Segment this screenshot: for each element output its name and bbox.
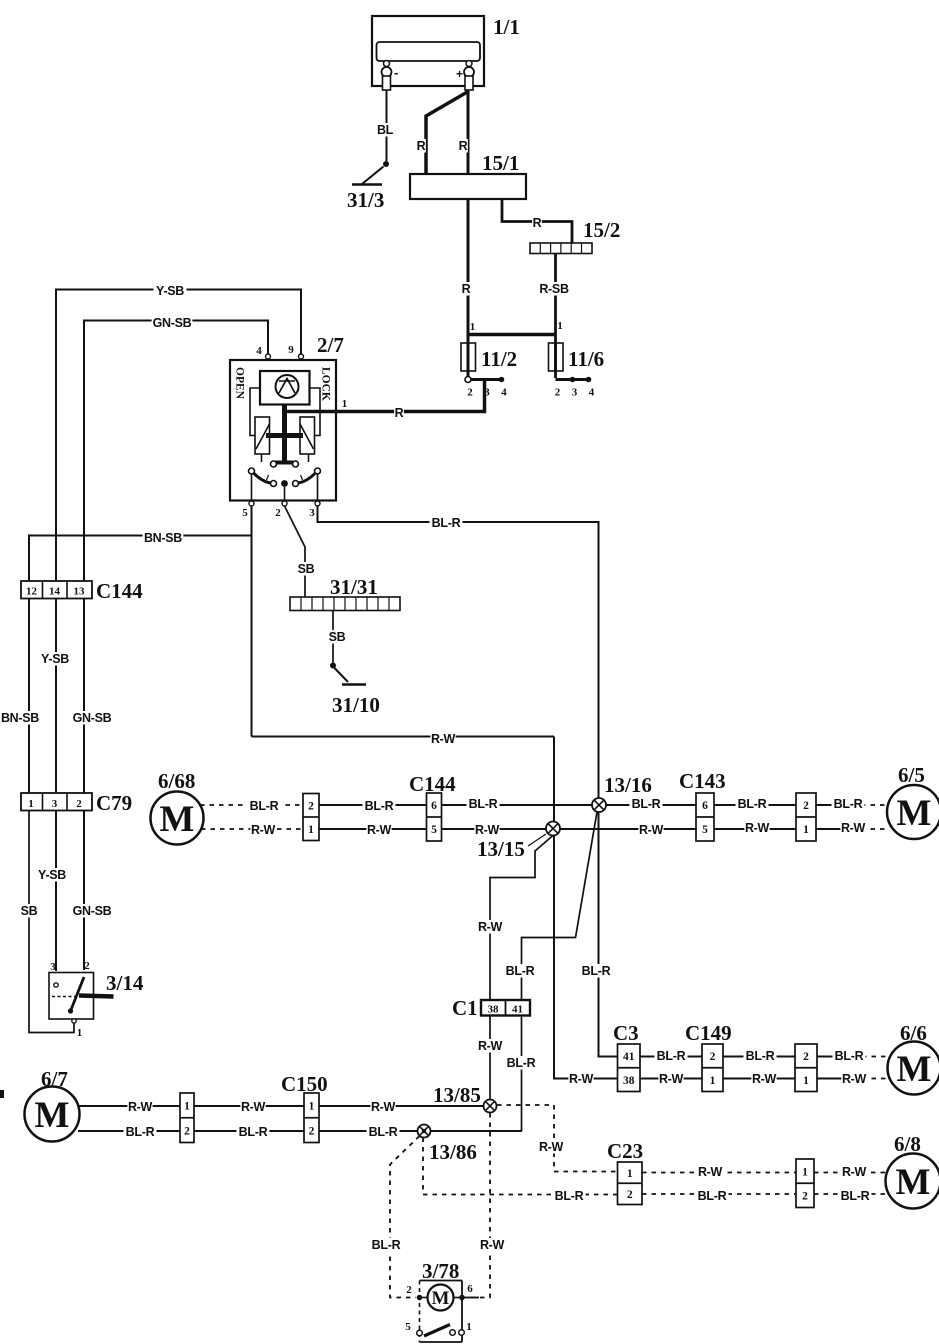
wire BL-R C143 to connector row1 bbox=[714, 804, 796, 806]
wire R-W horizontal from pin 5 drop bbox=[252, 736, 555, 738]
svg-text:BL-R: BL-R bbox=[835, 1049, 864, 1063]
svg-text:13/85: 13/85 bbox=[433, 1083, 481, 1107]
svg-text:1: 1 bbox=[28, 798, 34, 810]
relay 2/7 coil lower stubs bbox=[262, 454, 309, 462]
svg-text:2: 2 bbox=[184, 1125, 190, 1137]
svg-text:Y-SB: Y-SB bbox=[156, 284, 184, 298]
svg-text:1: 1 bbox=[802, 1166, 808, 1178]
label R-W row2 c bbox=[841, 1072, 866, 1086]
svg-text:1: 1 bbox=[77, 1027, 83, 1039]
junction 13/86 bbox=[418, 1125, 477, 1165]
svg-text:R: R bbox=[395, 406, 404, 420]
label R to 15/2 bbox=[532, 216, 542, 230]
label Y-SB low bbox=[36, 868, 69, 882]
motor 6/6 bbox=[888, 1021, 939, 1095]
wire R-W vertical through junction 13/15 to C3 pin 38 bbox=[554, 737, 618, 1079]
svg-text:BL-R: BL-R bbox=[432, 516, 461, 530]
wire R-SB from 15/2 down to fuse 11/6 bbox=[554, 254, 557, 379]
label BL-R to 3/78 bbox=[370, 1238, 403, 1252]
svg-text:BL-R: BL-R bbox=[657, 1049, 686, 1063]
svg-text:2: 2 bbox=[710, 1051, 716, 1063]
svg-text:R-W: R-W bbox=[698, 1165, 723, 1179]
wire R-W motor 6/7 to connector bbox=[80, 1105, 181, 1107]
connector C3 bbox=[613, 1021, 640, 1092]
svg-text:2: 2 bbox=[309, 1125, 315, 1137]
label R-W row3 a bbox=[127, 1100, 152, 1114]
svg-text:5: 5 bbox=[702, 824, 708, 836]
svg-text:OPEN: OPEN bbox=[234, 367, 246, 400]
wire Y-SB C79 to switch 3/14 pin 3 bbox=[55, 811, 57, 972]
label BL-R 13/86 elbow bbox=[553, 1189, 586, 1203]
label BL-R on 13/16 drop bbox=[504, 964, 537, 978]
svg-text:M: M bbox=[432, 1288, 450, 1309]
label R-W row4 a bbox=[697, 1165, 722, 1179]
svg-text:31/3: 31/3 bbox=[347, 188, 384, 212]
svg-text:LOCK: LOCK bbox=[320, 367, 332, 401]
relay 2/7 contact circles bbox=[267, 461, 303, 487]
label R-W row1 d bbox=[638, 823, 663, 837]
svg-text:C144: C144 bbox=[96, 579, 143, 603]
svg-text:R-W: R-W bbox=[480, 1238, 505, 1252]
svg-text:38: 38 bbox=[623, 1075, 635, 1087]
label R below 15/1 bbox=[461, 282, 471, 296]
svg-text:BL-R: BL-R bbox=[469, 797, 498, 811]
svg-text:14: 14 bbox=[49, 586, 61, 598]
wire R battery positive straight down through 15/1 to fuse 11/2 bbox=[467, 91, 470, 378]
svg-text:R-W: R-W bbox=[478, 920, 503, 934]
battery 1/1 bbox=[372, 15, 520, 90]
wire R-W connector to C144 row1 bbox=[319, 828, 427, 830]
svg-text:BL-R: BL-R bbox=[632, 797, 661, 811]
wire BL-R motor 6/7 to connector bbox=[78, 1130, 180, 1132]
lock motor 3/78 switch bbox=[405, 1321, 472, 1336]
wire R fuse 11/6 pin bar bbox=[556, 378, 591, 381]
label R-W to 3/78 bbox=[479, 1238, 504, 1252]
motor 6/68 bbox=[151, 769, 204, 845]
svg-text:BL-R: BL-R bbox=[369, 1125, 398, 1139]
wire BL-R from junction 13/16 down to C1 pin 41 bbox=[522, 812, 598, 1132]
wire SB from strip 31/31 to ground 31/10 bbox=[332, 611, 334, 664]
svg-text:2: 2 bbox=[555, 387, 561, 399]
wire from relay 2/7 pin 5 down bbox=[251, 506, 253, 737]
junction 13/16 bbox=[592, 773, 652, 812]
fuse 11/6 bbox=[549, 320, 605, 399]
connector C1 bbox=[452, 996, 530, 1020]
wire left column GN-SB C144 to C79 bbox=[83, 599, 85, 794]
svg-text:4: 4 bbox=[256, 345, 262, 357]
svg-text:13/86: 13/86 bbox=[429, 1140, 477, 1164]
wire R-W C3 to C149 bbox=[640, 1078, 702, 1080]
svg-text:12: 12 bbox=[26, 586, 38, 598]
label SB low bbox=[20, 904, 38, 918]
svg-text:R-W: R-W bbox=[128, 1100, 153, 1114]
label BL-R row2 b bbox=[744, 1049, 777, 1063]
label R-W row1 f bbox=[840, 821, 865, 835]
relay 2/7 right solenoid coil bbox=[300, 417, 315, 454]
wire R-W connector to C150 bbox=[194, 1105, 304, 1107]
wire BL from battery negative to ground 31/3 bbox=[386, 90, 388, 161]
label R-W row3 c bbox=[370, 1100, 395, 1114]
svg-text:2: 2 bbox=[406, 1284, 412, 1296]
wire BL-R C150 to junction 13/86 bbox=[319, 1130, 418, 1132]
svg-text:BL-R: BL-R bbox=[506, 964, 535, 978]
svg-text:R-W: R-W bbox=[431, 732, 456, 746]
label R-SB bbox=[538, 282, 571, 296]
svg-text:Y-SB: Y-SB bbox=[41, 652, 69, 666]
svg-text:41: 41 bbox=[623, 1051, 635, 1063]
label BL-R from pin 3 bbox=[430, 516, 463, 530]
wire R-W connector to motor 6/6 bbox=[817, 1078, 888, 1080]
label R-W row3 b bbox=[240, 1100, 265, 1114]
connector C144 row1 bbox=[409, 772, 456, 841]
svg-text:BL-R: BL-R bbox=[372, 1238, 401, 1252]
wire R-W dashed junction 13/85 down to lock motor 3/78 pin 6 bbox=[466, 1113, 490, 1298]
relay 2/7 pin numbers bbox=[242, 344, 347, 519]
svg-text:R-W: R-W bbox=[639, 823, 664, 837]
svg-text:C149: C149 bbox=[685, 1021, 732, 1045]
switch 3/14 bbox=[49, 960, 144, 1039]
svg-text:M: M bbox=[897, 1049, 932, 1090]
label BL-R row1 d bbox=[630, 797, 663, 811]
relay 2/7 thick center conductor bbox=[266, 405, 336, 463]
wire GN-SB C79 to switch 3/14 pin 2 bbox=[83, 811, 85, 971]
svg-text:R-W: R-W bbox=[745, 821, 770, 835]
wire SB from C79 pin 1 to switch 3/14 pin 1 bbox=[29, 811, 74, 1033]
wire R-W C150 to junction 13/85 bbox=[319, 1105, 484, 1107]
wire R-W dashed from motor 6/68 bbox=[201, 828, 303, 830]
wire Y-SB horizontal to relay pin 9 bbox=[56, 290, 301, 355]
svg-text:6/7: 6/7 bbox=[41, 1067, 68, 1091]
label BL-R on vertical to C3 bbox=[580, 964, 613, 978]
svg-text:BL-R: BL-R bbox=[746, 1049, 775, 1063]
svg-text:9: 9 bbox=[288, 344, 294, 356]
wire R battery positive diagonal to 15/1 bbox=[426, 91, 469, 174]
wire left column BN-SB C144 to C79 bbox=[28, 599, 30, 794]
svg-text:15/1: 15/1 bbox=[482, 151, 519, 175]
svg-text:R-SB: R-SB bbox=[539, 282, 569, 296]
label R-W below C1 bbox=[477, 1039, 502, 1053]
label BN-SB low bbox=[0, 711, 40, 725]
svg-text:2: 2 bbox=[802, 1191, 808, 1203]
connector C143 bbox=[679, 769, 726, 841]
wire R-W C143 to connector row1 bbox=[714, 828, 796, 830]
svg-text:BL-R: BL-R bbox=[555, 1189, 584, 1203]
label Y-SB mid bbox=[39, 652, 72, 666]
label BL-R row3 a bbox=[124, 1125, 157, 1139]
relay 2/7 LOCK text bbox=[320, 367, 332, 401]
label R-W row1 b bbox=[366, 823, 391, 837]
label BL-R row1 a bbox=[248, 799, 281, 813]
svg-text:3/14: 3/14 bbox=[106, 971, 144, 995]
svg-text:GN-SB: GN-SB bbox=[153, 316, 192, 330]
wire BL-R connector to C144 row1 bbox=[319, 804, 427, 806]
junction 13/85 bbox=[433, 1083, 497, 1113]
junction 13/15 bbox=[477, 822, 560, 862]
label R-W row1 a bbox=[250, 823, 275, 837]
svg-text:6: 6 bbox=[702, 800, 708, 812]
svg-text:M: M bbox=[896, 1162, 931, 1203]
wire R-W dashed junction 13/85 to C23 pin 1 bbox=[497, 1105, 618, 1172]
svg-text:1/1: 1/1 bbox=[493, 15, 520, 39]
svg-text:2/7: 2/7 bbox=[317, 333, 344, 357]
svg-text:1: 1 bbox=[309, 1101, 315, 1113]
label BL-R row3 b bbox=[237, 1125, 270, 1139]
connector C144 upper bbox=[21, 579, 143, 603]
svg-text:R: R bbox=[417, 139, 426, 153]
svg-text:R: R bbox=[462, 282, 471, 296]
wire R-W from junction 13/15 down to C1 pin 38 bbox=[490, 836, 553, 1107]
connector C79 bbox=[21, 791, 132, 815]
label R-W row2 b bbox=[751, 1072, 776, 1086]
svg-text:2: 2 bbox=[803, 800, 809, 812]
svg-text:1: 1 bbox=[308, 824, 314, 836]
svg-text:C1: C1 bbox=[452, 996, 478, 1020]
svg-text:SB: SB bbox=[298, 562, 315, 576]
label BL-R row1 f bbox=[832, 797, 865, 811]
relay 2/7 pin stubs and circles bbox=[249, 354, 320, 506]
connector C149 bbox=[685, 1021, 732, 1092]
wire R-W C149 to connector row2 bbox=[723, 1078, 795, 1080]
relay 2/7 OPEN text bbox=[234, 367, 246, 400]
wire BN-SB from relay pin 5 to left vertical bbox=[29, 536, 252, 582]
svg-text:C23: C23 bbox=[607, 1139, 643, 1163]
svg-text:R: R bbox=[459, 139, 468, 153]
svg-text:BL-R: BL-R bbox=[365, 799, 394, 813]
wire BL-R connector to motor 6/5 bbox=[816, 804, 888, 806]
svg-text:2: 2 bbox=[76, 798, 82, 810]
label GN-SB mid bbox=[72, 711, 113, 725]
connector C150 bbox=[281, 1072, 328, 1143]
svg-text:BL-R: BL-R bbox=[834, 797, 863, 811]
ground 31/10 bbox=[330, 663, 380, 718]
svg-text:1: 1 bbox=[803, 824, 809, 836]
svg-text:11/6: 11/6 bbox=[568, 347, 604, 371]
label BL-R row1 e bbox=[736, 797, 769, 811]
label SB below 31/31 bbox=[328, 630, 346, 644]
svg-text:R-W: R-W bbox=[842, 1165, 867, 1179]
connector row1 right bbox=[796, 793, 816, 841]
wire Y-SB left vertical bbox=[55, 290, 57, 582]
svg-text:3: 3 bbox=[52, 798, 58, 810]
wire GN-SB horizontal to relay pin 4 bbox=[84, 321, 268, 355]
svg-text:R-W: R-W bbox=[539, 1140, 564, 1154]
svg-text:BL-R: BL-R bbox=[507, 1056, 536, 1070]
svg-text:-: - bbox=[394, 65, 398, 80]
label SB below pin 2 bbox=[297, 562, 315, 576]
label BL bbox=[376, 123, 394, 137]
svg-text:C3: C3 bbox=[613, 1021, 639, 1045]
label R to relay pin 1 bbox=[394, 406, 404, 420]
lock motor 3/78 box bbox=[420, 1259, 463, 1342]
svg-text:15/2: 15/2 bbox=[583, 218, 620, 242]
wire BL-R C3 to C149 bbox=[640, 1056, 702, 1058]
svg-text:R-W: R-W bbox=[475, 823, 500, 837]
wire R bus joining tops of fuses 11/2 and 11/6 bbox=[468, 333, 556, 336]
svg-text:6/6: 6/6 bbox=[900, 1021, 927, 1045]
label BN-SB bbox=[143, 531, 184, 545]
svg-text:2: 2 bbox=[308, 800, 314, 812]
label R left bbox=[416, 139, 426, 153]
svg-text:31/31: 31/31 bbox=[330, 575, 378, 599]
wire R-W dashed connector to motor 6/8 bbox=[814, 1172, 886, 1174]
motor 6/8 bbox=[886, 1132, 939, 1209]
connector row2 right bbox=[795, 1044, 817, 1092]
label BL-R below C1 bbox=[505, 1056, 538, 1070]
svg-text:BL-R: BL-R bbox=[239, 1125, 268, 1139]
wire BL-R dashed junction 13/86 down to lock motor 3/78 pin 4 bbox=[390, 1136, 420, 1298]
svg-text:13/15: 13/15 bbox=[477, 837, 525, 861]
svg-text:+: + bbox=[456, 67, 463, 81]
svg-text:R-W: R-W bbox=[842, 1072, 867, 1086]
svg-text:BN-SB: BN-SB bbox=[144, 531, 182, 545]
svg-text:GN-SB: GN-SB bbox=[73, 904, 112, 918]
svg-text:3: 3 bbox=[50, 961, 56, 973]
wire R-W C144 through junction 13/15 to C143 bbox=[442, 828, 697, 830]
svg-text:4: 4 bbox=[501, 387, 507, 399]
label R-W row4 b bbox=[841, 1165, 866, 1179]
svg-text:6: 6 bbox=[467, 1283, 473, 1295]
wire R-W connector to motor 6/5 bbox=[816, 828, 887, 830]
fuse strip 15/2 bbox=[530, 218, 620, 254]
ground strip 31/31 bbox=[290, 575, 400, 611]
svg-text:11/2: 11/2 bbox=[481, 347, 517, 371]
label R-W row2 a bbox=[658, 1072, 683, 1086]
svg-text:5: 5 bbox=[431, 824, 437, 836]
label R-W horizontal bbox=[430, 732, 455, 746]
svg-text:BN-SB: BN-SB bbox=[1, 711, 39, 725]
svg-text:C150: C150 bbox=[281, 1072, 328, 1096]
svg-text:C79: C79 bbox=[96, 791, 132, 815]
svg-text:R-W: R-W bbox=[841, 821, 866, 835]
svg-text:R-W: R-W bbox=[371, 1100, 396, 1114]
wire BL-R C149 to connector row2 bbox=[723, 1056, 795, 1058]
wire SB from relay pin 2 to ground strip 31/31 bbox=[285, 506, 306, 597]
svg-text:2: 2 bbox=[275, 507, 281, 519]
svg-text:6/5: 6/5 bbox=[898, 763, 925, 787]
svg-text:1: 1 bbox=[710, 1075, 716, 1087]
label GN-SB low bbox=[72, 904, 113, 918]
svg-text:6: 6 bbox=[431, 800, 437, 812]
svg-text:1: 1 bbox=[342, 398, 348, 410]
svg-text:2: 2 bbox=[467, 387, 473, 399]
svg-text:1: 1 bbox=[470, 321, 476, 333]
svg-text:M: M bbox=[35, 1095, 70, 1136]
connector C23 bbox=[607, 1139, 643, 1205]
wire BL-R dashed junction 13/86 to C23 pin 2 bbox=[423, 1138, 618, 1195]
svg-text:BL: BL bbox=[377, 123, 394, 137]
svg-text:BL-R: BL-R bbox=[250, 799, 279, 813]
label BL-R row1 b bbox=[363, 799, 396, 813]
svg-text:5: 5 bbox=[405, 1321, 411, 1333]
wire R from 15/1 to strip 15/2 bbox=[502, 199, 572, 243]
label R-W 13/85 elbow bbox=[538, 1140, 563, 1154]
wire BL-R connector to C150 bbox=[194, 1130, 304, 1132]
svg-text:1: 1 bbox=[466, 1321, 472, 1333]
relay 2/7 internal side links bbox=[250, 388, 320, 436]
svg-text:3: 3 bbox=[484, 387, 490, 399]
wire GN-SB left vertical bbox=[83, 321, 85, 582]
connector row1 left bbox=[303, 794, 319, 841]
svg-text:R-W: R-W bbox=[752, 1072, 777, 1086]
svg-text:1: 1 bbox=[803, 1075, 809, 1087]
fuse 11/2 bbox=[461, 321, 517, 399]
label R-W row1 c bbox=[474, 823, 499, 837]
label BL-R row3 c bbox=[367, 1125, 400, 1139]
svg-text:SB: SB bbox=[21, 904, 38, 918]
label BL-R row2 a bbox=[655, 1049, 688, 1063]
wire R-W dashed C23 to connector row4 bbox=[642, 1172, 796, 1174]
svg-text:6/8: 6/8 bbox=[894, 1132, 921, 1156]
svg-text:1: 1 bbox=[627, 1168, 633, 1180]
wire BL-R dashed connector to motor 6/8 bbox=[814, 1193, 886, 1195]
connector row3 left bbox=[180, 1093, 194, 1143]
wire BL-R dashed C23 to connector row4 bbox=[642, 1193, 796, 1195]
svg-text:3/78: 3/78 bbox=[422, 1259, 459, 1283]
svg-text:GN-SB: GN-SB bbox=[73, 711, 112, 725]
svg-text:R-W: R-W bbox=[659, 1072, 684, 1086]
label R-W on 13/15 drop bbox=[477, 920, 502, 934]
svg-text:2: 2 bbox=[627, 1189, 633, 1201]
svg-text:R-W: R-W bbox=[251, 823, 276, 837]
svg-text:2: 2 bbox=[84, 960, 90, 972]
svg-text:BL-R: BL-R bbox=[582, 964, 611, 978]
svg-text:Y-SB: Y-SB bbox=[38, 868, 66, 882]
svg-text:41: 41 bbox=[512, 1004, 523, 1016]
svg-text:M: M bbox=[897, 793, 932, 834]
svg-text:C143: C143 bbox=[679, 769, 726, 793]
label BL-R row4 b bbox=[839, 1189, 872, 1203]
svg-text:BL-R: BL-R bbox=[698, 1189, 727, 1203]
wire BL-R connector to motor 6/6 bbox=[817, 1056, 888, 1058]
svg-text:BL-R: BL-R bbox=[841, 1189, 870, 1203]
svg-text:R-W: R-W bbox=[478, 1039, 503, 1053]
label BL-R row1 c bbox=[467, 797, 500, 811]
svg-text:R: R bbox=[533, 216, 542, 230]
svg-text:13/16: 13/16 bbox=[604, 773, 652, 797]
svg-text:2: 2 bbox=[803, 1051, 809, 1063]
wire BL-R from relay pin 3 to junction 13/16 and C3 pin 41 bbox=[318, 506, 618, 1057]
label BL-R row4 a bbox=[696, 1189, 729, 1203]
svg-text:R-W: R-W bbox=[569, 1072, 594, 1086]
label R right bbox=[458, 139, 468, 153]
svg-text:BL-R: BL-R bbox=[738, 797, 767, 811]
label BL-R row2 c bbox=[833, 1049, 866, 1063]
svg-text:C144: C144 bbox=[409, 772, 456, 796]
wire left column Y-SB C144 to C79 bbox=[55, 599, 57, 794]
wire R fuse 11/2 pin bar bbox=[470, 378, 504, 381]
svg-text:4: 4 bbox=[589, 387, 595, 399]
svg-text:SB: SB bbox=[329, 630, 346, 644]
svg-text:BL-R: BL-R bbox=[126, 1125, 155, 1139]
wire R from fuse 11/2 pin 3 to relay 2/7 pin 1 bbox=[336, 380, 485, 412]
edge mark left bbox=[0, 1090, 4, 1098]
svg-text:R-W: R-W bbox=[241, 1100, 266, 1114]
svg-text:3: 3 bbox=[572, 387, 578, 399]
wire BL-R junction 13/86 to C1 pin 41 drop bbox=[431, 1130, 522, 1132]
svg-text:1: 1 bbox=[557, 320, 563, 332]
svg-text:13: 13 bbox=[74, 586, 86, 598]
svg-text:6/68: 6/68 bbox=[158, 769, 195, 793]
lock motor 3/78 motor symbol bbox=[406, 1283, 479, 1311]
relay 2/7 box bbox=[230, 333, 344, 501]
connector row4 right bbox=[796, 1159, 814, 1208]
svg-text:1: 1 bbox=[184, 1101, 190, 1113]
label Y-SB top bbox=[154, 284, 187, 298]
motor 6/5 bbox=[887, 763, 939, 839]
svg-text:R-W: R-W bbox=[367, 823, 392, 837]
relay 2/7 actuator box with motor symbol bbox=[260, 371, 310, 405]
svg-text:5: 5 bbox=[242, 507, 248, 519]
